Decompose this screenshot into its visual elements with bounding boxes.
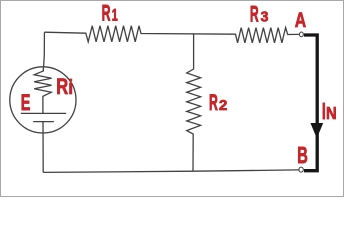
svg-text:B: B [297, 144, 308, 169]
svg-text:N: N [326, 104, 337, 124]
svg-text:R: R [56, 75, 68, 100]
svg-text:E: E [21, 91, 31, 116]
svg-text:R: R [250, 2, 259, 27]
svg-text:i: i [68, 77, 73, 100]
svg-text:R: R [209, 90, 218, 115]
svg-text:1: 1 [112, 5, 118, 24]
svg-text:A: A [295, 8, 306, 32]
svg-text:R: R [102, 1, 111, 26]
svg-text:2: 2 [219, 97, 228, 114]
svg-text:3: 3 [261, 10, 269, 26]
